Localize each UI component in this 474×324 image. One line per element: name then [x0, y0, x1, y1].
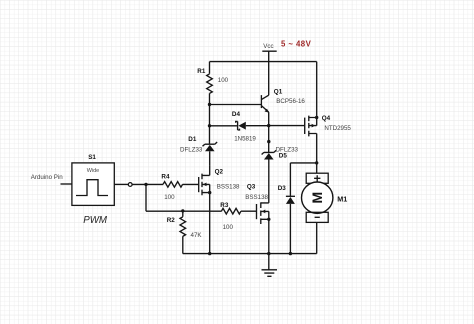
node Q1 emitter junction	[267, 124, 270, 127]
wire jog down to gate rail	[146, 184, 222, 211]
svg-text:M: M	[309, 192, 325, 204]
svg-text:Q3: Q3	[247, 184, 256, 191]
svg-text:Arduino Pin: Arduino Pin	[31, 174, 64, 181]
resistor R2 47K	[167, 211, 203, 254]
node PWM splitter junction	[144, 183, 147, 186]
resistor R4 100	[161, 173, 198, 201]
svg-text:D1: D1	[188, 136, 197, 143]
svg-text:R2: R2	[167, 217, 176, 224]
svg-text:D4: D4	[232, 111, 241, 118]
transistor Q4 NTD2955 PMOS	[305, 62, 352, 174]
svg-text:100: 100	[218, 77, 229, 84]
wire branch to D3	[290, 163, 316, 196]
svg-text:Wide: Wide	[87, 168, 100, 174]
wire Q2 source to ground rail	[209, 193, 211, 254]
svg-text:47K: 47K	[191, 232, 203, 239]
svg-text:R1: R1	[197, 68, 206, 75]
svg-text:R3: R3	[220, 202, 229, 209]
svg-text:5 ~ 48V: 5 ~ 48V	[281, 39, 312, 48]
svg-text:Q1: Q1	[274, 89, 283, 96]
pin open connector circle	[128, 183, 132, 187]
resistor R1 100	[197, 62, 228, 105]
power symbol Vcc	[262, 43, 276, 61]
svg-text:S1: S1	[88, 154, 96, 161]
node D3 anode on rail	[289, 252, 292, 255]
svg-text:BCP56-16: BCP56-16	[276, 98, 305, 105]
wire PWM node to R4	[132, 183, 163, 185]
node ground stem junction	[267, 252, 270, 255]
wire to Q1 base	[210, 104, 262, 106]
node D4 anode-side junction	[208, 124, 211, 127]
wire Q1 emitter node to Q4 gate	[269, 125, 305, 127]
source S1 PWM generator	[72, 154, 114, 226]
wire S1 output	[114, 183, 128, 185]
node R2 top junction	[181, 209, 184, 212]
zener diode D1 DFLZ33 cathode up	[180, 136, 217, 166]
wire Arduino pin input	[61, 183, 72, 185]
svg-text:NTD2955: NTD2955	[324, 125, 351, 132]
ground	[262, 254, 278, 277]
svg-text:Q4: Q4	[322, 115, 331, 122]
resistor R3 100	[220, 202, 256, 231]
svg-text:100: 100	[223, 224, 234, 231]
wire bottom ground rail	[183, 253, 317, 255]
svg-text:D5: D5	[279, 152, 288, 159]
wire Q3 source to ground rail	[268, 219, 270, 253]
svg-text:Vcc: Vcc	[263, 43, 273, 50]
transistor Q1 BCP56-16 NPN	[261, 62, 305, 126]
svg-text:D3: D3	[278, 185, 287, 192]
diode D3 freewheel cathode up	[278, 185, 295, 253]
transistor Q2 BSS138 NMOS	[199, 166, 240, 195]
node wire joint on emitter branch	[267, 140, 270, 143]
svg-text:1N5819: 1N5819	[234, 135, 256, 142]
diode D4 1N5819 schottky pointing left	[210, 111, 269, 142]
svg-text:100: 100	[164, 194, 175, 201]
wire emitter branch down to D5	[268, 126, 270, 153]
svg-text:DFLZ33: DFLZ33	[180, 146, 203, 153]
node Q2 source on rail	[208, 252, 211, 255]
svg-text:BSS138: BSS138	[217, 184, 240, 191]
wire left branch down to D1	[209, 105, 211, 144]
svg-text:M1: M1	[337, 195, 347, 204]
transistor Q3 BSS138 NMOS	[245, 184, 270, 225]
svg-text:Q2: Q2	[215, 169, 224, 176]
wire top supply rail	[210, 61, 317, 63]
node Q4 drain / motor / D3 junction	[315, 161, 318, 164]
wire motor minus to ground rail	[316, 222, 318, 253]
zener diode D5 DFLZ33 cathode up	[262, 146, 299, 194]
svg-text:PWM: PWM	[83, 215, 108, 226]
svg-text:R4: R4	[161, 173, 170, 180]
svg-text:BSS138: BSS138	[245, 194, 268, 201]
motor M1	[302, 173, 348, 222]
node R1 bottom / Q1 base junction	[208, 103, 211, 106]
